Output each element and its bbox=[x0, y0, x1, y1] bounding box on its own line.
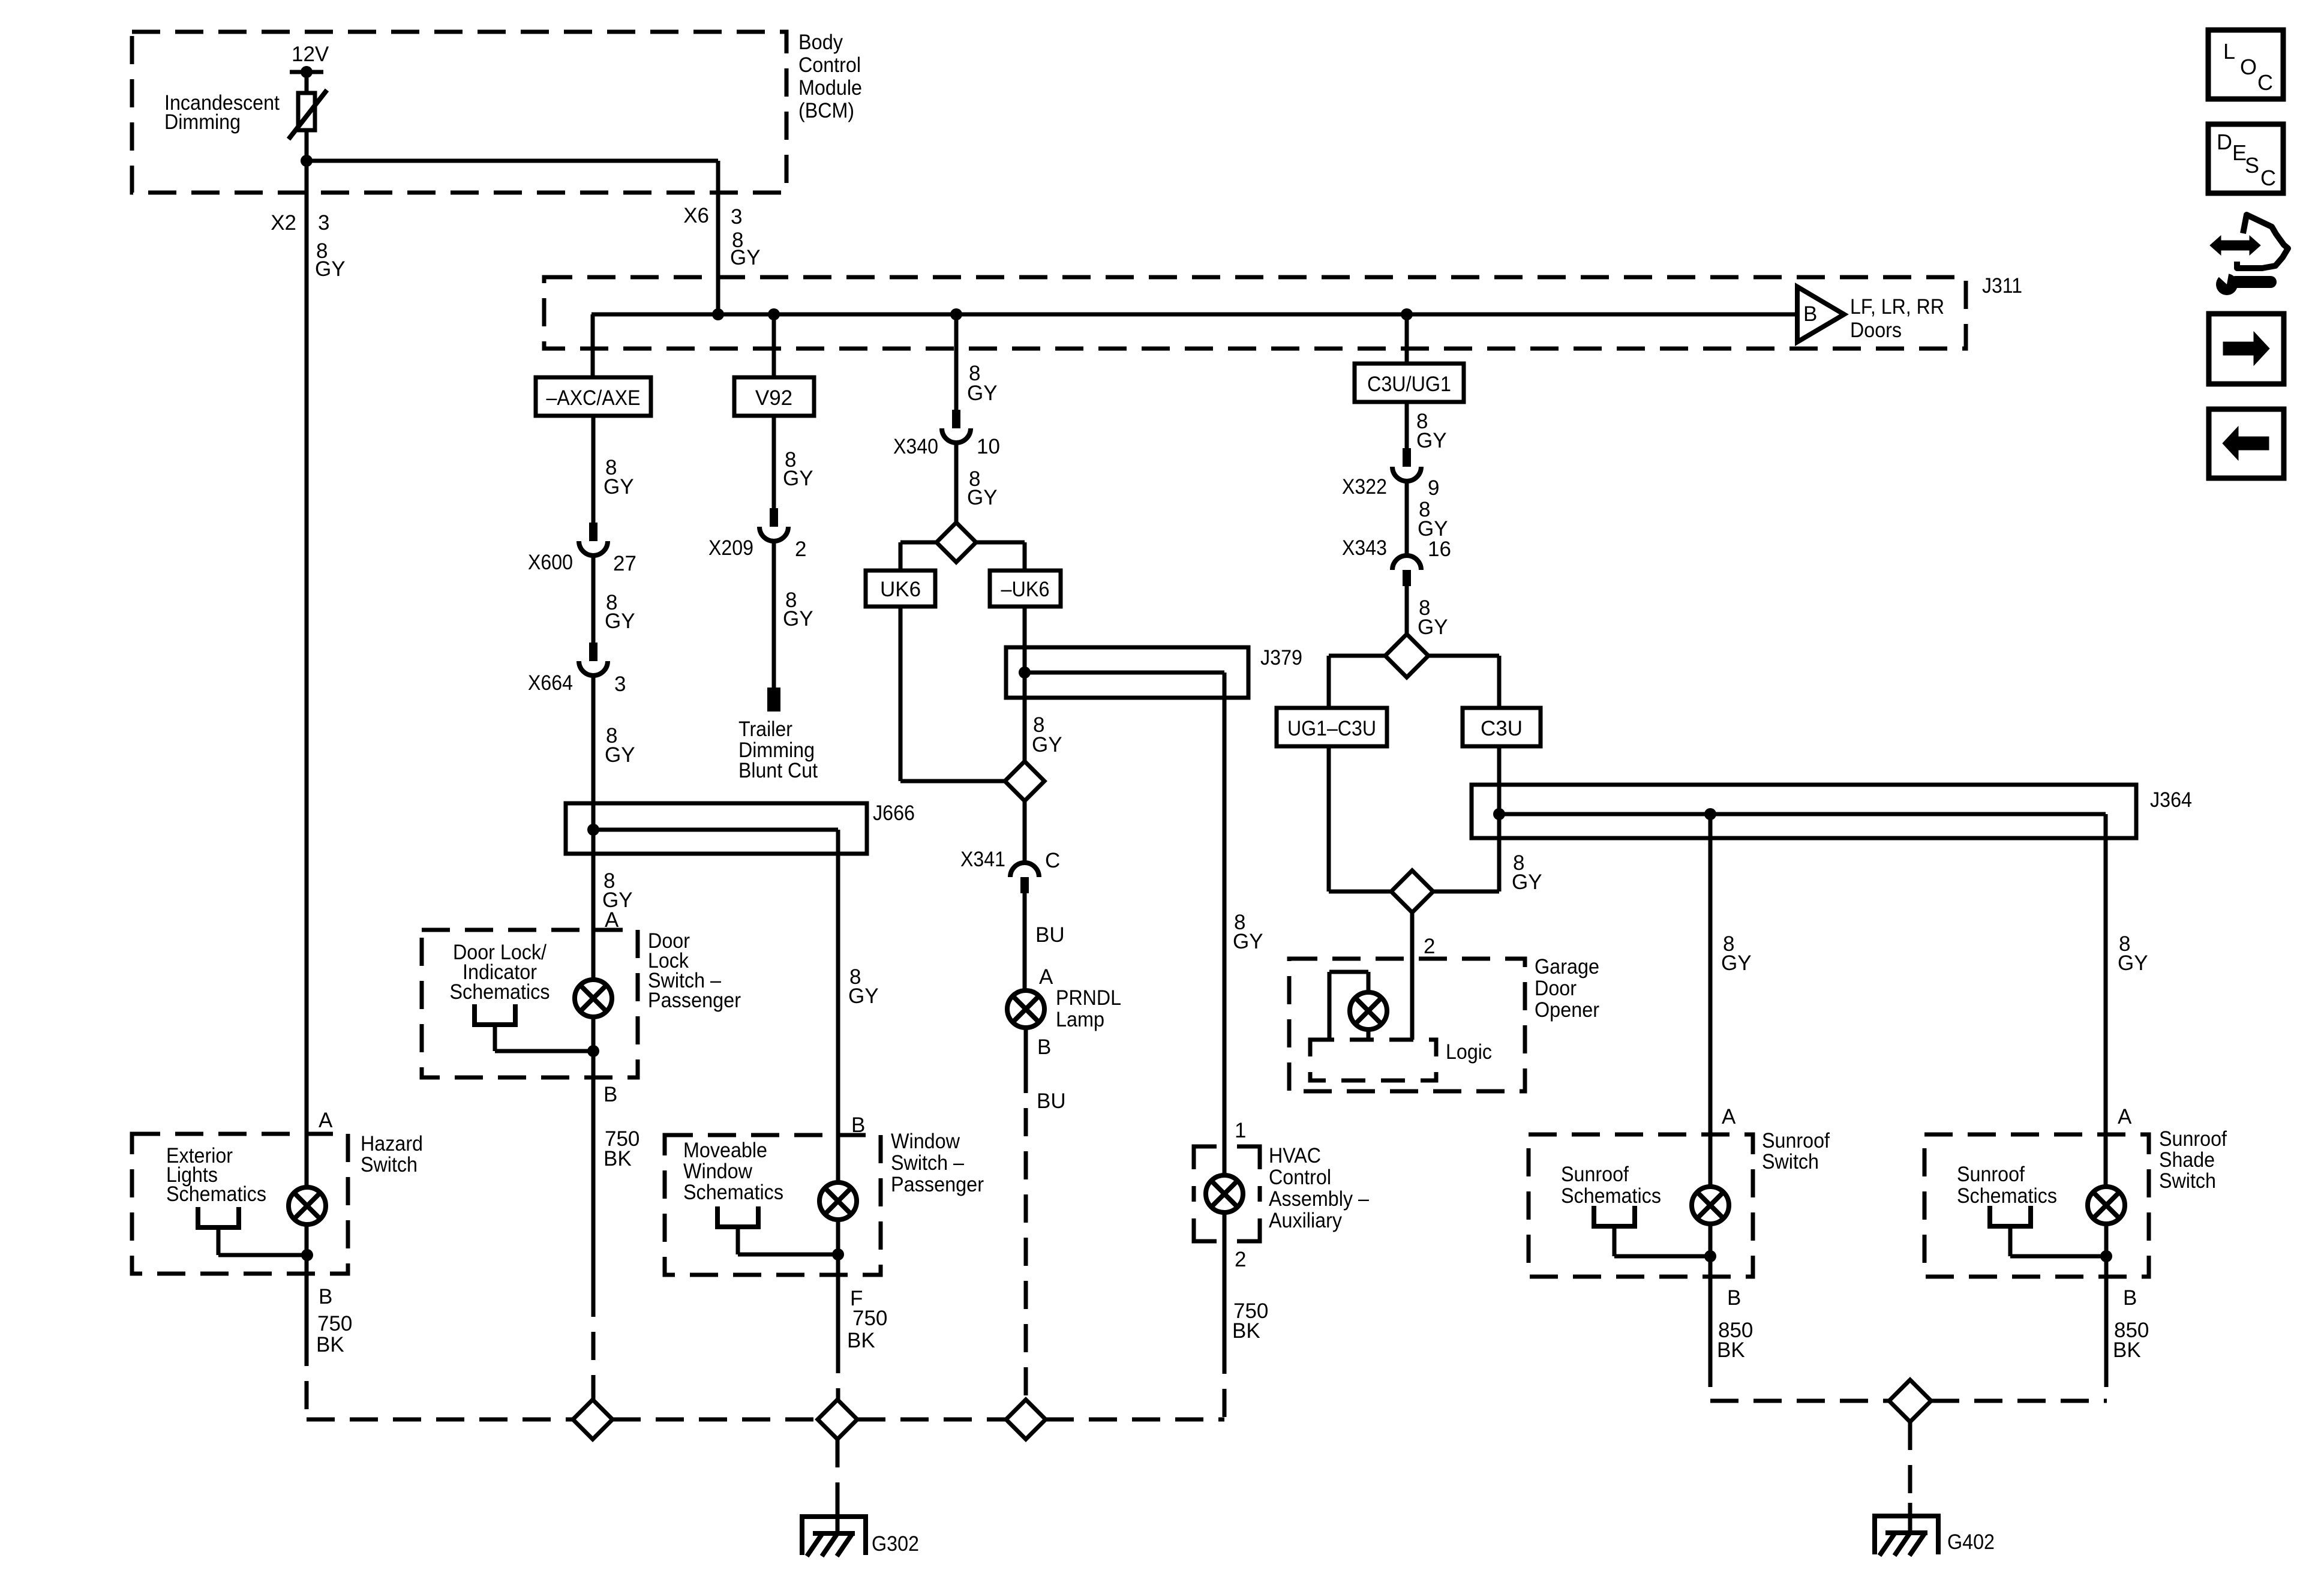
svg-text:Garage: Garage bbox=[1535, 955, 1599, 978]
svg-text:Schematics: Schematics bbox=[1561, 1184, 1661, 1208]
connector X664 pin 3 bbox=[589, 643, 597, 661]
svg-text:B: B bbox=[1037, 1035, 1051, 1059]
svg-text:BU: BU bbox=[1035, 923, 1065, 947]
svg-text:Doors: Doors bbox=[1850, 319, 1902, 342]
wire: hazard pin B 750 BK bbox=[305, 1274, 309, 1338]
schematic reference bracket (exterior lights) bbox=[198, 1207, 239, 1227]
svg-text:3: 3 bbox=[614, 673, 626, 696]
schematic reference bracket (sunroof shade) bbox=[1990, 1206, 2031, 1226]
svg-text:C: C bbox=[2260, 166, 2276, 190]
svg-text:Control: Control bbox=[1269, 1166, 1331, 1189]
node: window lamp/reference join bbox=[832, 1248, 844, 1260]
svg-text:GY: GY bbox=[603, 475, 634, 499]
schematic reference bracket (door lock) bbox=[475, 1004, 515, 1025]
svg-text:1: 1 bbox=[1235, 1119, 1246, 1142]
svg-text:D: D bbox=[2217, 130, 2232, 154]
wire: dashed stem to G402 bbox=[1908, 1422, 1912, 1503]
wire: bus to -AXC/AXE option box bbox=[591, 314, 595, 377]
svg-text:Auxiliary: Auxiliary bbox=[1269, 1209, 1342, 1232]
node: shade lamp/reference join bbox=[2100, 1250, 2112, 1262]
lamp: garage door opener illumination bbox=[1350, 992, 1387, 1029]
svg-text:16: 16 bbox=[1428, 538, 1451, 561]
wire: X340 to split splice bbox=[954, 443, 959, 523]
component box: Hazard Switch bbox=[132, 1134, 348, 1274]
wire: X2 output (hazard feed) bbox=[305, 161, 309, 1188]
svg-text:Sunroof: Sunroof bbox=[1957, 1163, 2025, 1186]
wire: door lock pin B 750 BK bbox=[591, 1077, 596, 1289]
wire: dashed 750 BK to ground bus corner bbox=[305, 1338, 309, 1419]
svg-text:BK: BK bbox=[2113, 1338, 2141, 1362]
wire: UG1-C3U branch to rejoin splice bbox=[1327, 746, 1331, 891]
svg-text:27: 27 bbox=[613, 552, 636, 575]
svg-text:A: A bbox=[1039, 965, 1053, 989]
wire: J666 branch 8 GY to window switch pin B bbox=[836, 854, 840, 1182]
svg-text:Schematics: Schematics bbox=[1957, 1184, 2057, 1208]
wire: rheostat to internal node bbox=[305, 130, 309, 161]
svg-text:G402: G402 bbox=[1947, 1530, 1995, 1554]
option box C3U/UG1 bbox=[1355, 364, 1464, 402]
junction box J379 bbox=[1006, 647, 1248, 698]
component box: Window Switch - Passenger bbox=[665, 1135, 881, 1275]
splice: PRNDL ground bbox=[1006, 1400, 1046, 1439]
svg-text:GY: GY bbox=[783, 607, 813, 631]
svg-text:J666: J666 bbox=[873, 801, 915, 825]
wire: J379 branch to HVAC bbox=[1025, 671, 1224, 675]
icon box: back arrow bbox=[2209, 409, 2284, 478]
svg-text:750: 750 bbox=[317, 1312, 352, 1335]
wire: dashed BU to ground bus bbox=[1024, 1065, 1028, 1400]
lamp: door lock switch illumination bbox=[575, 980, 612, 1017]
svg-text:2: 2 bbox=[1235, 1248, 1246, 1271]
wire: lamp to pin F bbox=[836, 1220, 840, 1275]
wire: lamp to pin B bbox=[305, 1224, 309, 1274]
svg-text:X600: X600 bbox=[528, 551, 573, 574]
wire: lamp loop to logic bbox=[1367, 972, 1371, 992]
wire: BCM internal feed to X6 bbox=[307, 159, 718, 163]
icon box: forward arrow bbox=[2209, 314, 2284, 384]
svg-text:GY: GY bbox=[967, 486, 998, 509]
splice: UK6 option split bbox=[936, 523, 976, 562]
svg-text:GY: GY bbox=[1416, 429, 1447, 452]
svg-text:12V: 12V bbox=[292, 43, 329, 66]
power node 12V bbox=[290, 70, 323, 74]
wire: -UK6 through J379 to rejoin splice bbox=[1023, 607, 1027, 761]
splice: C3U/UG1 option split bbox=[1385, 634, 1428, 677]
wire: splice to -UK6 box bbox=[976, 541, 1025, 545]
component box: Garage Door Opener bbox=[1289, 959, 1525, 1091]
svg-text:S: S bbox=[2245, 153, 2259, 178]
connector X322 pin 9 bbox=[1403, 448, 1411, 467]
svg-text:J364: J364 bbox=[2150, 788, 2192, 812]
connector X340 pin 10 bbox=[952, 410, 960, 428]
ground bus wire (shade) bbox=[1931, 1399, 2107, 1403]
svg-text:GY: GY bbox=[605, 610, 635, 633]
wire: J666 branch to window switch bbox=[593, 828, 838, 832]
svg-text:Trailer: Trailer bbox=[738, 718, 792, 741]
ground bus wire to HVAC corner bbox=[1046, 1418, 1224, 1422]
svg-text:–UK6: –UK6 bbox=[1001, 578, 1050, 601]
junction box J311 bbox=[544, 277, 1966, 349]
ground bus wire to G302 bbox=[307, 1418, 573, 1422]
node: J364 sunroof tap bbox=[1704, 808, 1716, 820]
svg-text:C: C bbox=[2257, 70, 2273, 95]
ground bus wire bbox=[857, 1418, 1006, 1422]
option box C3U bbox=[1463, 708, 1541, 746]
wire: J311 bus bbox=[591, 313, 1797, 317]
wire: splice to UK6 box bbox=[900, 541, 936, 545]
splice: sunroof grounds / G402 tap bbox=[1889, 1380, 1931, 1422]
svg-text:BK: BK bbox=[1232, 1319, 1260, 1343]
svg-text:750: 750 bbox=[852, 1307, 887, 1330]
svg-text:Body: Body bbox=[798, 31, 843, 54]
wire: X322 to X343 bbox=[1405, 481, 1409, 557]
svg-text:Logic: Logic bbox=[1446, 1040, 1492, 1064]
node: J666 splice bbox=[587, 824, 599, 836]
svg-text:Switch: Switch bbox=[1762, 1150, 1819, 1173]
connector X343 pin 16 bbox=[1392, 556, 1421, 570]
wire: dashed 750 BK to ground bus corner bbox=[1223, 1346, 1227, 1419]
svg-text:Sunroof: Sunroof bbox=[1762, 1129, 1830, 1152]
svg-text:GY: GY bbox=[783, 467, 813, 490]
svg-text:UG1–C3U: UG1–C3U bbox=[1287, 717, 1376, 740]
wire: dashed 850 BK to G402 bus bbox=[1709, 1359, 1713, 1401]
splice: door lock ground bbox=[573, 1400, 612, 1439]
svg-text:Opener: Opener bbox=[1535, 998, 1599, 1022]
svg-text:Schematics: Schematics bbox=[166, 1182, 266, 1206]
svg-text:Lamp: Lamp bbox=[1056, 1008, 1104, 1031]
rheostat R1: incandescent dimming driver bbox=[298, 93, 315, 130]
svg-text:GY: GY bbox=[848, 984, 879, 1008]
svg-text:X341: X341 bbox=[960, 848, 1005, 871]
svg-text:UK6: UK6 bbox=[880, 578, 921, 601]
wire: split to UG1-C3U box bbox=[1329, 654, 1385, 658]
junction box J666 bbox=[566, 803, 867, 854]
wire: lamp to pin B bbox=[1709, 1224, 1713, 1277]
svg-text:B: B bbox=[2123, 1286, 2137, 1310]
component box: HVAC Control Assembly - Auxiliary bbox=[1194, 1146, 1260, 1241]
svg-text:X6: X6 bbox=[683, 204, 709, 227]
svg-text:Passenger: Passenger bbox=[648, 989, 741, 1012]
junction box J364 bbox=[1472, 785, 2136, 838]
splice triangle B: to LF, LR, RR Doors bbox=[1797, 287, 1844, 342]
svg-text:GY: GY bbox=[2118, 951, 2148, 975]
svg-text:J311: J311 bbox=[1982, 274, 2022, 298]
wire: sunroof pin B 850 BK bbox=[1709, 1277, 1713, 1359]
svg-text:Switch: Switch bbox=[2159, 1169, 2216, 1193]
wire: bus to C3U/UG1 option box bbox=[1405, 314, 1409, 364]
svg-text:3: 3 bbox=[318, 211, 329, 235]
connector X600 pin 27 bbox=[589, 523, 597, 541]
lamp: PRNDL Lamp bbox=[1007, 990, 1044, 1028]
wire: 8 GY to sunroof shade switch pin A bbox=[2104, 838, 2108, 1187]
icon: service/adjust (double arrow, part outline, wrench) bbox=[2237, 215, 2288, 268]
node: X6 to bus bbox=[712, 308, 724, 320]
wire: UK6 branch to rejoin splice bbox=[900, 779, 1005, 784]
wire: lamp to pin B bbox=[591, 1017, 596, 1077]
node: X340 tap bbox=[950, 308, 962, 320]
wire: X341 to PRNDL lamp pin A bbox=[1023, 893, 1027, 990]
connector X341 pin C bbox=[1010, 863, 1039, 877]
wire: X343 to option split splice bbox=[1405, 586, 1409, 634]
svg-text:V92: V92 bbox=[755, 386, 792, 410]
wire: C3U branch to rejoin splice bbox=[1433, 890, 1499, 894]
wire: rejoin splice to X341 bbox=[1023, 801, 1027, 864]
schematic reference bracket (sunroof) bbox=[1594, 1206, 1635, 1226]
svg-text:B: B bbox=[1803, 302, 1817, 326]
wire: V92 to X209 bbox=[772, 416, 776, 508]
svg-text:Control: Control bbox=[798, 53, 861, 77]
svg-text:9: 9 bbox=[1428, 476, 1439, 500]
wire: split to C3U box bbox=[1428, 654, 1499, 658]
wire: dashed stem to G302 bbox=[836, 1439, 840, 1506]
lamp: window switch illumination bbox=[819, 1182, 857, 1220]
svg-text:(BCM): (BCM) bbox=[798, 99, 854, 122]
component box: Sunroof Shade Switch bbox=[1924, 1134, 2149, 1277]
svg-text:Door: Door bbox=[1535, 977, 1577, 1000]
svg-text:X2: X2 bbox=[271, 211, 296, 235]
svg-text:LF, LR, RR: LF, LR, RR bbox=[1850, 295, 1944, 319]
ground G402 bbox=[1872, 1514, 1941, 1518]
node: sunroof lamp/reference join bbox=[1704, 1250, 1716, 1262]
wire: HVAC pin 2 750 BK bbox=[1223, 1212, 1227, 1346]
svg-text:10: 10 bbox=[977, 435, 1000, 458]
svg-text:X209: X209 bbox=[708, 536, 753, 560]
svg-text:GY: GY bbox=[1032, 733, 1062, 757]
splice: UK6 rejoin bbox=[1005, 761, 1044, 801]
svg-text:3: 3 bbox=[731, 205, 742, 229]
ground G302 bbox=[800, 1514, 868, 1519]
splice: garage door opener feed bbox=[1391, 870, 1433, 912]
wire: shade pin B 850 BK bbox=[2104, 1277, 2109, 1359]
splice: window switch ground / G302 tap bbox=[818, 1400, 857, 1439]
option box UK6 bbox=[866, 571, 935, 607]
wire: window pin F 750 BK bbox=[836, 1275, 840, 1345]
lamp: HVAC control assembly illumination bbox=[1206, 1175, 1243, 1212]
svg-text:B: B bbox=[603, 1083, 617, 1106]
component box: Sunroof Switch bbox=[1529, 1134, 1753, 1277]
wire: lamp to pin B bbox=[2104, 1224, 2109, 1277]
lamp: hazard switch illumination bbox=[289, 1187, 326, 1224]
svg-text:GY: GY bbox=[1418, 616, 1448, 639]
svg-text:PRNDL: PRNDL bbox=[1056, 986, 1121, 1010]
svg-text:Hazard: Hazard bbox=[361, 1132, 423, 1155]
svg-text:L: L bbox=[2223, 39, 2235, 64]
svg-text:HVAC: HVAC bbox=[1269, 1144, 1321, 1167]
wire: 8 GY to sunroof switch pin A bbox=[1709, 838, 1713, 1187]
node: C3U/UG1 tap bbox=[1401, 308, 1413, 320]
svg-text:C3U/UG1: C3U/UG1 bbox=[1367, 373, 1451, 396]
svg-text:BU: BU bbox=[1037, 1089, 1066, 1113]
component box: Door Lock Switch - Passenger bbox=[422, 930, 638, 1077]
svg-text:–AXC/AXE: –AXC/AXE bbox=[547, 386, 641, 410]
wire: C3U/UG1 to X322 bbox=[1405, 402, 1409, 448]
wire: bus to X340 bbox=[954, 314, 959, 410]
svg-text:GY: GY bbox=[1512, 870, 1542, 894]
svg-text:A: A bbox=[319, 1109, 333, 1132]
svg-text:Assembly –: Assembly – bbox=[1269, 1187, 1369, 1211]
svg-text:GY: GY bbox=[605, 743, 635, 767]
svg-text:BK: BK bbox=[847, 1329, 875, 1352]
wire: J666 to door lock switch pin A bbox=[591, 854, 596, 980]
option box -AXC/AXE bbox=[536, 377, 651, 416]
ground bus wire bbox=[612, 1418, 818, 1422]
node: J379 splice bbox=[1019, 667, 1031, 679]
svg-text:B: B bbox=[319, 1285, 332, 1308]
lamp: sunroof switch illumination bbox=[1692, 1187, 1729, 1224]
svg-text:A: A bbox=[1722, 1105, 1736, 1128]
svg-text:GY: GY bbox=[315, 257, 346, 281]
svg-text:Sunroof: Sunroof bbox=[1561, 1163, 1629, 1186]
node: lamp/reference join bbox=[587, 1045, 599, 1057]
svg-text:BK: BK bbox=[316, 1333, 344, 1356]
wire: dashed 750 BK to ground bus bbox=[836, 1345, 840, 1400]
wire: X664 to J666 bbox=[591, 676, 596, 803]
svg-text:J379: J379 bbox=[1260, 646, 1302, 670]
module box U1: Body Control Module (BCM) bbox=[132, 32, 786, 193]
svg-text:BK: BK bbox=[603, 1147, 632, 1170]
svg-text:G302: G302 bbox=[872, 1532, 919, 1556]
svg-text:X322: X322 bbox=[1342, 475, 1387, 499]
svg-text:Switch: Switch bbox=[361, 1153, 418, 1176]
node: V92 tap bbox=[768, 308, 780, 320]
svg-text:X340: X340 bbox=[893, 435, 938, 458]
wire: PRNDL pin B bbox=[1024, 1028, 1028, 1065]
option box -UK6 bbox=[990, 571, 1061, 607]
wire: J364 internal branch bbox=[1499, 812, 2106, 816]
ground bus wire (sunroof) bbox=[1710, 1399, 1890, 1403]
svg-text:2: 2 bbox=[1424, 935, 1435, 958]
svg-text:Window: Window bbox=[891, 1130, 960, 1153]
svg-text:Module: Module bbox=[798, 76, 862, 100]
svg-text:C3U: C3U bbox=[1481, 717, 1523, 740]
terminal: trailer dimming blunt cut bbox=[767, 688, 780, 712]
svg-text:X343: X343 bbox=[1342, 536, 1387, 560]
wire: -AXC/AXE to X600 bbox=[591, 416, 596, 523]
svg-text:Sunroof: Sunroof bbox=[2159, 1127, 2227, 1151]
wire: lamp to logic bbox=[1367, 1029, 1371, 1040]
wire: through J666 bbox=[591, 803, 596, 854]
svg-text:C: C bbox=[1045, 849, 1060, 872]
svg-text:Switch –: Switch – bbox=[891, 1151, 964, 1175]
svg-text:Moveable: Moveable bbox=[683, 1139, 767, 1162]
svg-text:2: 2 bbox=[795, 538, 806, 561]
svg-text:Window: Window bbox=[683, 1160, 753, 1183]
wire: C3U branch through J364 bbox=[1497, 746, 1502, 891]
node: hazard lamp/reference join bbox=[301, 1249, 313, 1261]
svg-text:GY: GY bbox=[1721, 951, 1752, 975]
svg-text:BK: BK bbox=[1717, 1338, 1745, 1362]
svg-text:GY: GY bbox=[967, 382, 998, 405]
wire: J379 branch 8 GY down to HVAC bbox=[1223, 698, 1227, 1175]
svg-text:O: O bbox=[2240, 55, 2257, 79]
svg-text:Schematics: Schematics bbox=[450, 980, 550, 1004]
wire: 12V to rheostat bbox=[305, 72, 309, 93]
svg-text:GY: GY bbox=[1233, 930, 1263, 953]
wire: dashed 850 BK to G402 bus bbox=[2104, 1359, 2109, 1401]
option box V92 bbox=[734, 377, 814, 416]
node: J364 entry splice bbox=[1493, 808, 1505, 820]
wire: splice to garage door opener pin 2 bbox=[1410, 912, 1415, 1040]
svg-text:Blunt Cut: Blunt Cut bbox=[738, 759, 818, 782]
connector X209 pin 2 bbox=[770, 508, 778, 527]
svg-text:B: B bbox=[1727, 1286, 1741, 1310]
schematic reference bracket (moveable window) bbox=[717, 1206, 758, 1227]
lamp: sunroof shade switch illumination bbox=[2088, 1187, 2125, 1224]
icon box: DESC bbox=[2208, 124, 2283, 193]
wire: UK6 branch down bbox=[899, 607, 903, 781]
wire: J364 tap to sunroof switch bbox=[1709, 814, 1713, 838]
node: BCM internal junction bbox=[301, 155, 313, 167]
svg-text:Passenger: Passenger bbox=[891, 1173, 984, 1196]
svg-text:X664: X664 bbox=[528, 671, 573, 695]
wire: X600 to X664 bbox=[591, 556, 596, 643]
icon box: LOC bbox=[2208, 30, 2283, 99]
svg-text:A: A bbox=[2118, 1105, 2132, 1128]
wire: X209 to blunt cut bbox=[772, 541, 776, 688]
option box UG1-C3U bbox=[1277, 708, 1387, 746]
wire: bus to V92 option box bbox=[772, 314, 776, 377]
wire: dashed 750 BK to ground bus bbox=[591, 1289, 596, 1400]
svg-text:Schematics: Schematics bbox=[683, 1181, 783, 1204]
svg-text:Dimming: Dimming bbox=[164, 110, 241, 134]
logic box: Garage Door Opener logic bbox=[1310, 1040, 1436, 1080]
svg-text:Shade: Shade bbox=[2159, 1148, 2215, 1172]
svg-text:GY: GY bbox=[730, 246, 761, 269]
